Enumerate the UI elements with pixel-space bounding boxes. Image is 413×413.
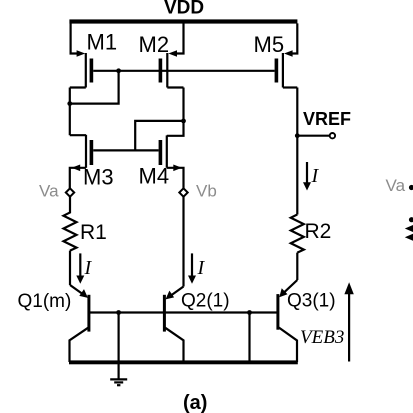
svg-text:Va: Va — [386, 176, 406, 195]
wire gate line M1-M2-M5 — [93, 70, 274, 72]
svg-text:VDD: VDD — [164, 0, 204, 19]
current arrow I (output branch) — [303, 162, 311, 191]
node Va — [66, 188, 74, 196]
wire M3/M4 gate line — [93, 149, 158, 151]
wire M2 drain to M3/M4 gates — [135, 121, 183, 150]
transistor M4 — [159, 135, 184, 188]
transistor M5 — [275, 23, 298, 87]
resistor R1 — [64, 197, 77, 251]
ground — [110, 379, 127, 385]
resistor R2 — [291, 215, 304, 253]
node dot fragment (panel b) — [409, 185, 413, 190]
junction base rail right — [247, 310, 252, 315]
wire M2 drain to M4 source — [167, 88, 184, 136]
svg-text:M2: M2 — [139, 32, 170, 57]
svg-text:Va: Va — [39, 182, 59, 201]
svg-text:VEB3: VEB3 — [300, 327, 344, 348]
transistor M2 — [159, 23, 184, 87]
wire M5 drain to VREF node — [296, 88, 298, 136]
junction gate node — [116, 68, 121, 73]
wire base rail to ground (left tie) — [117, 313, 119, 380]
wire base rail Q1-Q2-Q3 — [89, 311, 278, 313]
arrowhead fragment 2 (panel b) — [405, 234, 413, 241]
svg-text:VREF: VREF — [303, 109, 351, 129]
wire M1 drain to M3 source — [69, 88, 71, 136]
wire R2 to Q3 emitter — [296, 253, 298, 280]
svg-text:Vb: Vb — [196, 182, 217, 201]
svg-text:M3: M3 — [83, 165, 114, 190]
node Vb — [179, 188, 187, 196]
svg-text:Q3(1): Q3(1) — [287, 291, 336, 312]
ground bus — [69, 360, 298, 364]
svg-text:R1: R1 — [80, 221, 107, 244]
svg-text:R2: R2 — [305, 220, 332, 243]
wire base rail to bus (right tie) — [248, 313, 250, 363]
wire R1 to Q1 emitter — [69, 251, 71, 285]
node VREF terminal — [297, 133, 335, 138]
svg-text:I: I — [197, 257, 206, 279]
power rail VDD — [69, 19, 297, 23]
junction M1 drain — [67, 101, 72, 106]
svg-text:Q1(m): Q1(m) — [18, 291, 72, 312]
annotation arrow VEB3 — [344, 282, 353, 361]
svg-text:M4: M4 — [139, 164, 170, 189]
current arrow I (Q2 branch) — [188, 253, 196, 283]
wire Vb to Q2 emitter — [182, 197, 184, 287]
transistor Q3 — [278, 280, 297, 362]
svg-text:M5: M5 — [254, 32, 285, 57]
transistor M3 — [70, 135, 93, 189]
svg-text:I: I — [311, 165, 320, 187]
junction base rail left — [116, 310, 121, 315]
svg-text:I: I — [84, 257, 93, 279]
junction M2 drain — [181, 119, 186, 124]
svg-text:(a): (a) — [183, 392, 207, 413]
current arrow I (Q1 branch) — [76, 253, 84, 283]
transistor Q2 — [164, 287, 183, 363]
wire M1 diode connection — [70, 71, 119, 104]
junction VREF — [295, 133, 300, 138]
svg-text:M1: M1 — [87, 30, 118, 55]
node dot fragment 2 (panel b) — [409, 217, 413, 222]
svg-text:Q2(1): Q2(1) — [181, 291, 230, 312]
transistor Q1 — [70, 285, 89, 362]
transistor M1 — [70, 23, 93, 87]
wire VREF node to R2 — [296, 136, 298, 215]
arrowhead fragment (panel b) — [405, 225, 413, 232]
